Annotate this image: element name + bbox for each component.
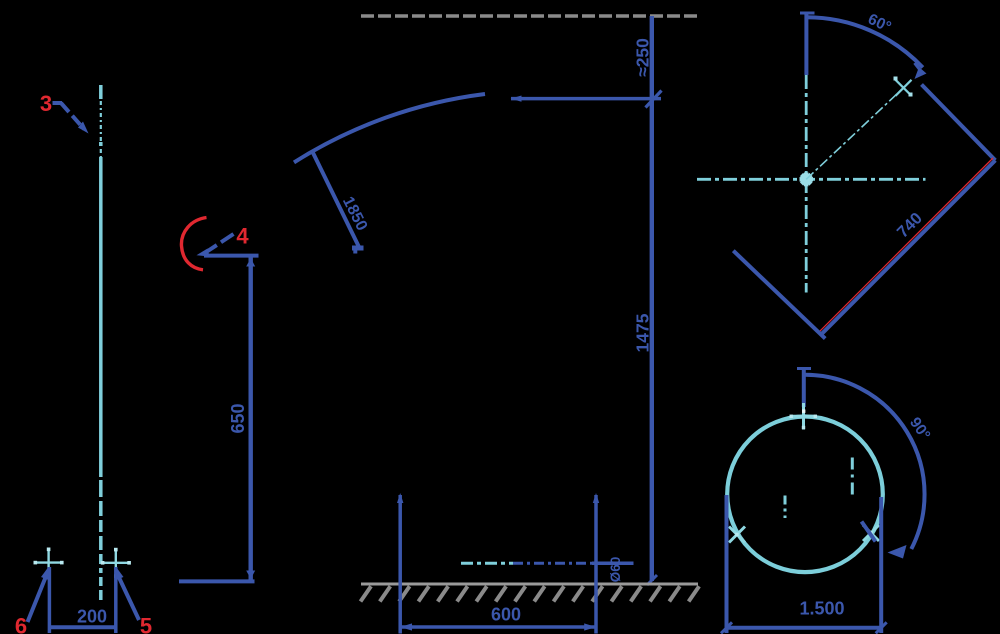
svg-text:200: 200 xyxy=(77,607,107,627)
svg-text:3: 3 xyxy=(40,91,52,116)
svg-text:600: 600 xyxy=(491,605,521,625)
svg-text:≈250: ≈250 xyxy=(633,38,653,77)
svg-text:5: 5 xyxy=(140,614,152,634)
svg-text:1.500: 1.500 xyxy=(799,599,844,619)
svg-text:650: 650 xyxy=(228,403,248,433)
svg-text:4: 4 xyxy=(236,224,249,249)
svg-text:6: 6 xyxy=(15,614,27,634)
svg-text:Ø60: Ø60 xyxy=(608,557,623,583)
svg-text:1475: 1475 xyxy=(633,313,653,352)
